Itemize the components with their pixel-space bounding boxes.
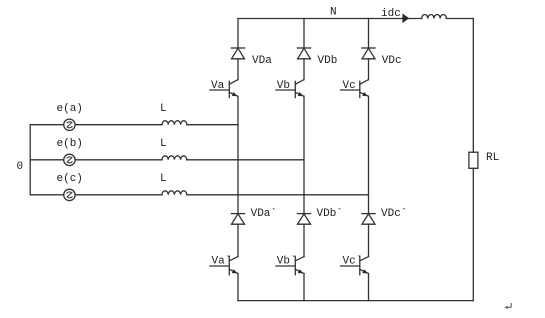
svg-text:L: L — [160, 103, 167, 115]
svg-text:e(a): e(a) — [57, 103, 83, 115]
svg-text:Vc`: Vc` — [343, 254, 363, 267]
svg-text:Va: Va — [211, 80, 225, 92]
svg-text:e(b): e(b) — [57, 138, 83, 150]
svg-text:VDb`: VDb` — [317, 207, 343, 220]
svg-text:0: 0 — [17, 161, 24, 173]
svg-text:VDb: VDb — [318, 55, 338, 67]
svg-text:Vb`: Vb` — [277, 254, 297, 267]
svg-text:VDa`: VDa` — [251, 207, 277, 220]
svg-text:L: L — [160, 138, 167, 150]
svg-text:VDa: VDa — [252, 55, 272, 67]
svg-text:RL: RL — [486, 152, 499, 164]
svg-text:Vc: Vc — [343, 80, 356, 92]
svg-text:VDc`: VDc` — [381, 207, 407, 220]
svg-text:L: L — [160, 173, 167, 185]
svg-text:N: N — [330, 7, 337, 19]
svg-text:e(c): e(c) — [57, 173, 83, 185]
svg-text:VDc: VDc — [382, 55, 402, 67]
svg-text:Vb: Vb — [277, 80, 290, 92]
svg-text:idc: idc — [381, 8, 401, 20]
svg-text:Va`: Va` — [212, 254, 232, 267]
